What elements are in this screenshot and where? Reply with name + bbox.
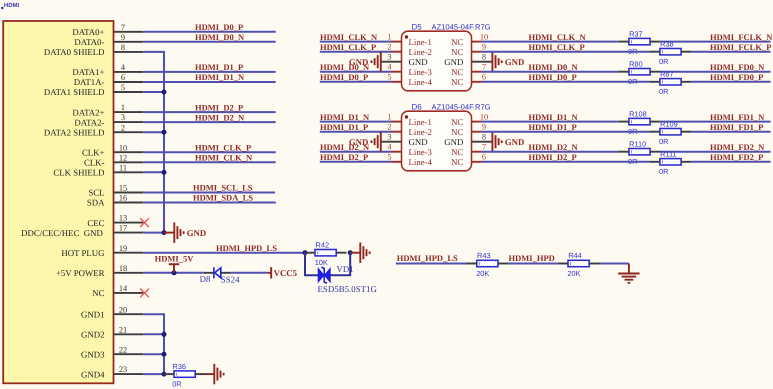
connector pin 5 stub	[114, 91, 144, 93]
wire diode to VCC5	[231, 272, 268, 274]
svg-text:HDMI_CLK_N: HDMI_CLK_N	[320, 32, 378, 42]
ground at D5 pin 3	[372, 51, 381, 71]
IC D6 pin 5	[392, 161, 402, 163]
svg-text:R38: R38	[660, 39, 674, 48]
svg-text:D6: D6	[412, 102, 423, 111]
svg-text:Line-3: Line-3	[409, 147, 433, 157]
svg-text:R37: R37	[629, 29, 643, 38]
wire D6 pin8 to ground	[482, 141, 493, 143]
svg-text:1: 1	[387, 32, 391, 41]
junction GND pin 21	[162, 332, 167, 337]
svg-text:HDMI_D2_P: HDMI_D2_P	[195, 102, 243, 112]
svg-text:SDA: SDA	[87, 198, 105, 208]
svg-text:DATA0+: DATA0+	[72, 27, 104, 37]
svg-text:9: 9	[121, 33, 125, 42]
IC D5 pin 9	[472, 51, 482, 53]
wire net HDMI_FCLK_N	[660, 41, 770, 43]
resistor R80 0R	[619, 71, 629, 73]
wire pin 18 to diode D8	[143, 272, 204, 274]
svg-text:R80: R80	[629, 59, 643, 68]
connector pin 23 stub	[114, 373, 144, 375]
ground at R42	[360, 242, 369, 263]
IC D5 pin 8	[472, 61, 482, 63]
wire GND pin 21	[143, 333, 164, 335]
svg-text:HDMI_D1_P: HDMI_D1_P	[320, 122, 368, 132]
connector pin 4 stub	[114, 71, 144, 73]
IC D6 pin 8	[472, 141, 482, 143]
svg-text:NC: NC	[451, 147, 463, 157]
svg-text:NC: NC	[92, 288, 104, 298]
IC D6 pin 4	[392, 151, 402, 153]
svg-text:HDMI_CLK_N: HDMI_CLK_N	[195, 153, 253, 163]
wire net HDMI_D1_P at D6 left	[320, 131, 392, 133]
svg-text:R42: R42	[316, 240, 330, 249]
svg-text:15: 15	[119, 184, 127, 193]
svg-text:5: 5	[387, 73, 391, 82]
wire net HDMI_D0_N	[482, 71, 619, 73]
IC D5 pin 1	[392, 41, 402, 43]
connector pin 18 stub	[114, 272, 144, 274]
svg-text:6: 6	[121, 73, 125, 82]
svg-text:DDC/CEC/HEC GND: DDC/CEC/HEC GND	[21, 228, 103, 238]
connector J HDMI receptacle body	[3, 21, 113, 383]
resistor R42 10K	[305, 252, 315, 254]
wire shield pin 5	[143, 91, 164, 93]
svg-text:19: 19	[119, 244, 127, 253]
svg-text:GND: GND	[444, 57, 463, 67]
svg-text:GND2: GND2	[81, 330, 104, 340]
wire net HDMI_D1_N	[482, 121, 619, 123]
wire net HDMI_D2_P	[143, 111, 276, 113]
IC D5 pin 10	[472, 41, 482, 43]
wire GND bus vertical	[143, 314, 164, 374]
no-ERC cross pin 13 CEC	[140, 218, 149, 227]
wire GND pin 22	[143, 353, 164, 355]
svg-text:Line-1: Line-1	[409, 117, 432, 127]
wire net HDMI_FD2_N	[660, 151, 770, 153]
svg-text:NC: NC	[451, 127, 463, 137]
connector pin 2 stub	[114, 131, 144, 133]
wire pin17 to bus	[143, 232, 164, 234]
svg-text:DATA2+: DATA2+	[72, 107, 104, 117]
svg-text:17: 17	[119, 224, 127, 233]
wire net HDMI_FCLK_P	[691, 51, 770, 53]
connector pin 15 stub	[114, 192, 144, 194]
svg-text:HDMI_CLK_N: HDMI_CLK_N	[529, 32, 587, 42]
svg-text:HDMI_FD0_P: HDMI_FD0_P	[710, 72, 763, 82]
svg-text:GND: GND	[349, 57, 369, 67]
connector pin 13 stub	[114, 222, 144, 224]
wire pin17 to ground symbol	[164, 232, 174, 234]
wire net HDMI_D0_N at D5 left	[320, 71, 392, 73]
svg-text:HDMI_CLK_P: HDMI_CLK_P	[320, 42, 376, 52]
svg-text:HDMI_D0_N: HDMI_D0_N	[195, 32, 245, 42]
connector pin 12 stub	[114, 161, 144, 163]
junction GND pin 23	[162, 372, 167, 377]
svg-text:GND: GND	[444, 137, 463, 147]
wire VD1 right branch	[330, 253, 350, 276]
svg-text:HDMI_D0_P: HDMI_D0_P	[195, 22, 243, 32]
svg-text:DAT1A-: DAT1A-	[74, 77, 105, 87]
connector pin 3 stub	[114, 121, 144, 123]
HDMI sheet title	[1, 7, 3, 9]
svg-text:GND: GND	[409, 137, 428, 147]
IC D6 pin 3	[392, 141, 402, 143]
wire net HDMI_D2_N	[143, 121, 276, 123]
connector pin 9 stub	[114, 41, 144, 43]
svg-text:HDMI_5V: HDMI_5V	[155, 253, 195, 263]
svg-text:0R: 0R	[172, 380, 181, 389]
svg-text:Line-4: Line-4	[409, 157, 433, 167]
ground at R36	[214, 364, 223, 385]
IC D6 pin 10	[472, 121, 482, 123]
svg-text:HDMI_D1_P: HDMI_D1_P	[195, 62, 243, 72]
diode D8 SS24	[204, 272, 214, 274]
svg-text:10: 10	[480, 32, 488, 41]
svg-text:DATA1+: DATA1+	[72, 67, 104, 77]
svg-text:AZ1045-04F.R7G: AZ1045-04F.R7G	[432, 22, 491, 31]
svg-text:HDMI_SDA_LS: HDMI_SDA_LS	[193, 193, 253, 203]
svg-text:GND: GND	[505, 137, 525, 147]
svg-text:R110: R110	[629, 139, 646, 148]
svg-text:5: 5	[121, 83, 125, 92]
svg-text:R111: R111	[660, 150, 677, 159]
svg-text:CEC: CEC	[87, 218, 104, 228]
svg-text:HDMI_CLK_P: HDMI_CLK_P	[529, 42, 585, 52]
connector pin 19 stub	[114, 252, 144, 254]
svg-text:0R: 0R	[659, 87, 668, 96]
wire to ground right of R42	[350, 252, 360, 254]
IC D6 pin 6	[472, 161, 482, 163]
svg-text:10K: 10K	[315, 258, 328, 267]
svg-text:14: 14	[119, 284, 128, 293]
wire D6 pin3 to ground	[381, 141, 392, 143]
wire net HDMI_HPD	[508, 263, 557, 265]
connector pin 6 stub	[114, 81, 144, 83]
wire VD1 left branch	[305, 253, 318, 276]
svg-text:R109: R109	[660, 119, 678, 128]
svg-text:20: 20	[119, 305, 127, 314]
connector pin 10 stub	[114, 151, 144, 153]
svg-text:12: 12	[119, 153, 127, 162]
svg-text:20K: 20K	[476, 269, 489, 278]
wire R44 to ground corner	[600, 263, 629, 265]
wire net HDMI_CLK_N	[143, 161, 276, 163]
wire shield bus vertical	[143, 52, 164, 233]
svg-text:R43: R43	[477, 251, 491, 260]
connector pin 17 stub	[114, 232, 144, 234]
junction HPD right	[348, 250, 353, 255]
resistor R43 20K	[467, 263, 477, 265]
TVS diode VD1 ESD5B5.0ST1G	[318, 267, 330, 283]
svg-text:HDMI_D0_P: HDMI_D0_P	[529, 72, 577, 82]
svg-text:1: 1	[387, 112, 391, 121]
connector pin 21 stub	[114, 333, 144, 335]
svg-text:CLK SHIELD: CLK SHIELD	[53, 168, 104, 178]
junction shield pin 5	[162, 90, 167, 95]
svg-text:0R: 0R	[659, 167, 668, 176]
svg-text:0R: 0R	[659, 57, 668, 66]
svg-text:8: 8	[482, 53, 486, 62]
resistor R37 0R	[619, 41, 629, 43]
connector pin 11 stub	[114, 171, 144, 173]
wire shield pin 2	[143, 131, 164, 133]
svg-text:D8: D8	[200, 274, 211, 284]
svg-text:NC: NC	[451, 37, 463, 47]
resistor R87 0R	[650, 81, 660, 83]
svg-text:GND1: GND1	[81, 309, 104, 319]
svg-text:VCC5: VCC5	[274, 268, 298, 278]
wire net HDMI_FD0_P	[691, 81, 770, 83]
svg-text:HDMI_HPD: HDMI_HPD	[509, 253, 555, 263]
svg-text:AZ1045-04F.R7G: AZ1045-04F.R7G	[432, 102, 491, 111]
resistor R38 0R	[650, 51, 660, 53]
svg-text:10: 10	[480, 112, 488, 121]
svg-text:HDMI_FD1_N: HDMI_FD1_N	[710, 112, 765, 122]
svg-text:NC: NC	[451, 47, 463, 57]
svg-text:HDMI_D1_N: HDMI_D1_N	[320, 112, 370, 122]
svg-text:HOT PLUG: HOT PLUG	[61, 248, 105, 258]
svg-text:18: 18	[119, 264, 127, 273]
IC D6 AZ1045-04F.R7G body	[402, 111, 472, 171]
svg-text:HDMI_FD1_P: HDMI_FD1_P	[710, 122, 763, 132]
connector pin 22 stub	[114, 353, 144, 355]
svg-text:+5V POWER: +5V POWER	[56, 268, 105, 278]
svg-text:HDMI_D2_P: HDMI_D2_P	[529, 152, 577, 162]
IC D6 pin 9	[472, 131, 482, 133]
svg-text:HDMI_FCLK_N: HDMI_FCLK_N	[710, 32, 773, 42]
svg-text:R36: R36	[172, 362, 186, 371]
svg-text:0R: 0R	[659, 137, 668, 146]
wire GND pin 23	[143, 373, 164, 375]
svg-text:NC: NC	[451, 67, 463, 77]
svg-text:HDMI_CLK_P: HDMI_CLK_P	[195, 142, 251, 152]
wire net HDMI_D0_N	[143, 41, 276, 43]
svg-text:HDMI_D0_N: HDMI_D0_N	[529, 62, 579, 72]
svg-text:2: 2	[121, 123, 125, 132]
svg-text:7: 7	[121, 23, 125, 32]
svg-text:CLK+: CLK+	[82, 147, 105, 157]
svg-text:CLK-: CLK-	[84, 158, 105, 168]
svg-text:HDMI_FD2_N: HDMI_FD2_N	[710, 142, 765, 152]
wire net HDMI_FD0_N	[660, 71, 770, 73]
connector pin 1 stub	[114, 111, 144, 113]
svg-text:DATA2-: DATA2-	[74, 117, 104, 127]
svg-text:HDMI_HPD_LS: HDMI_HPD_LS	[397, 253, 458, 263]
junction HDMI_5V	[172, 270, 177, 275]
svg-text:Line-2: Line-2	[409, 47, 432, 57]
wire net HDMI_D2_N	[482, 151, 619, 153]
svg-text:Line-1: Line-1	[409, 37, 432, 47]
svg-text:GND: GND	[409, 57, 428, 67]
wire net HDMI_CLK_P at D5 left	[320, 51, 392, 53]
wire net HDMI_FD1_P	[691, 131, 770, 133]
svg-text:HDMI_HPD_LS: HDMI_HPD_LS	[216, 243, 277, 253]
svg-text:GND: GND	[187, 228, 207, 238]
connector pin 8 stub	[114, 51, 144, 53]
resistor R109 0R	[650, 131, 660, 133]
svg-text:HDMI_FD2_P: HDMI_FD2_P	[710, 152, 763, 162]
svg-text:6: 6	[482, 73, 486, 82]
svg-text:9: 9	[482, 43, 486, 52]
svg-text:3: 3	[387, 133, 391, 142]
svg-text:HDMI_FD0_N: HDMI_FD0_N	[710, 62, 765, 72]
IC D5 pin 5	[392, 81, 402, 83]
wire D5 pin8 to ground	[482, 61, 493, 63]
svg-text:HDMI_D1_N: HDMI_D1_N	[195, 72, 245, 82]
ground at D5 pin 8	[492, 51, 501, 71]
svg-text:R87: R87	[660, 70, 674, 79]
IC D5 pin 2	[392, 51, 402, 53]
wire net HDMI_D1_P	[482, 131, 650, 133]
svg-text:HDMI_D2_N: HDMI_D2_N	[195, 112, 245, 122]
svg-text:7: 7	[482, 63, 486, 72]
svg-text:16: 16	[119, 194, 127, 203]
IC D5 AZ1045-04F.R7G body	[402, 31, 472, 91]
IC D5 pin 7	[472, 71, 482, 73]
svg-text:R108: R108	[629, 109, 647, 118]
IC D5 pin 6	[472, 81, 482, 83]
svg-text:HDMI: HDMI	[4, 2, 20, 9]
svg-text:6: 6	[482, 153, 486, 162]
svg-text:5: 5	[387, 153, 391, 162]
svg-text:23: 23	[119, 365, 127, 374]
svg-text:SCL: SCL	[88, 188, 104, 198]
svg-text:VD1: VD1	[337, 264, 354, 274]
svg-text:DATA0-: DATA0-	[74, 37, 104, 47]
wire net HDMI_D0_P	[482, 81, 650, 83]
ground at D6 pin 8	[492, 131, 501, 152]
svg-text:Line-2: Line-2	[409, 127, 432, 137]
wire net HDMI_D2_P	[482, 161, 650, 163]
wire R36 to ground	[206, 373, 215, 375]
svg-text:3: 3	[387, 53, 391, 62]
svg-text:HDMI_D2_P: HDMI_D2_P	[320, 152, 368, 162]
svg-text:D5: D5	[412, 22, 423, 31]
IC D6 pin 7	[472, 151, 482, 153]
svg-text:GND3: GND3	[81, 349, 105, 359]
svg-text:8: 8	[482, 133, 486, 142]
wire net HDMI_SCL_LS	[143, 192, 275, 194]
IC D6 pin 1	[392, 121, 402, 123]
wire net HDMI_FD1_N	[660, 121, 770, 123]
svg-text:ESD5B5.0ST1G: ESD5B5.0ST1G	[318, 284, 378, 294]
IC D6 pin 2	[392, 131, 402, 133]
resistor R110 0R	[619, 151, 629, 153]
svg-text:22: 22	[119, 345, 127, 354]
wire net HDMI_D1_N at D6 left	[320, 121, 392, 123]
junction HPD left	[303, 250, 308, 255]
wire shield pin 11	[143, 171, 164, 173]
wire net HDMI_D0_P at D5 left	[320, 81, 392, 83]
svg-text:NC: NC	[451, 117, 463, 127]
svg-text:2: 2	[387, 43, 391, 52]
svg-text:DATA0 SHIELD: DATA0 SHIELD	[44, 47, 105, 57]
svg-text:HDMI_D0_P: HDMI_D0_P	[320, 72, 368, 82]
resistor R111 0R	[650, 161, 660, 163]
power port VCC5	[268, 272, 272, 274]
wire net HDMI_D1_N	[143, 81, 276, 83]
svg-text:HDMI_SCL_LS: HDMI_SCL_LS	[193, 183, 253, 193]
wire net HDMI_SDA_LS	[143, 202, 276, 204]
ground GND at pin 17	[174, 222, 183, 243]
svg-text:NC: NC	[451, 77, 463, 87]
svg-text:GND: GND	[505, 57, 525, 67]
junction GND pin 22	[162, 352, 167, 357]
wire net HDMI_HPD_LS right section	[396, 263, 467, 265]
connector pin 7 stub	[114, 31, 144, 33]
resistor R44 20K	[558, 263, 568, 265]
junction shield pin 11	[162, 170, 167, 175]
ground at R44	[628, 264, 630, 274]
svg-text:7: 7	[482, 143, 486, 152]
power port HDMI_5V	[173, 264, 175, 273]
wire net HDMI_D2_N at D6 left	[320, 151, 392, 153]
svg-text:HDMI_D1_N: HDMI_D1_N	[529, 112, 579, 122]
svg-text:SS24: SS24	[221, 274, 240, 284]
ground at D6 pin 3	[372, 131, 381, 152]
svg-text:Line-3: Line-3	[409, 67, 433, 77]
svg-text:3: 3	[121, 113, 125, 122]
svg-text:9: 9	[482, 123, 486, 132]
svg-text:HDMI_FCLK_P: HDMI_FCLK_P	[710, 42, 771, 52]
resistor R108 0R	[619, 121, 629, 123]
svg-text:8: 8	[121, 43, 125, 52]
svg-text:21: 21	[119, 325, 127, 334]
junction shield pin 2	[162, 130, 167, 135]
svg-text:11: 11	[119, 163, 127, 172]
svg-text:DATA1 SHIELD: DATA1 SHIELD	[44, 87, 105, 97]
wire net HDMI_CLK_N at D5 left	[320, 41, 392, 43]
svg-text:GND: GND	[349, 137, 369, 147]
wire net HDMI_CLK_P	[143, 151, 276, 153]
wire net HDMI_FD2_P	[691, 161, 770, 163]
svg-text:HDMI_D1_P: HDMI_D1_P	[529, 122, 577, 132]
svg-text:DATA2 SHIELD: DATA2 SHIELD	[44, 127, 105, 137]
connector pin 14 stub	[114, 292, 144, 294]
wire net HDMI_CLK_N	[482, 41, 619, 43]
svg-text:HDMI_D2_N: HDMI_D2_N	[529, 142, 579, 152]
resistor R36 0R	[164, 373, 174, 375]
svg-text:10: 10	[119, 143, 127, 152]
wire net HDMI_D1_P	[143, 71, 276, 73]
svg-text:R44: R44	[568, 251, 582, 260]
junction pin17 GND bus	[162, 230, 167, 235]
svg-text:13: 13	[119, 214, 127, 223]
wire net HDMI_CLK_P	[482, 51, 650, 53]
no-ERC cross pin 14 NC	[140, 289, 149, 298]
wire net HDMI_D0_P	[143, 31, 276, 33]
wire D5 pin3 to ground	[381, 61, 392, 63]
connector pin 20 stub	[114, 313, 144, 315]
svg-text:20K: 20K	[567, 269, 580, 278]
svg-text:GND4: GND4	[81, 369, 105, 379]
wire net HDMI_HPD_LS from pin 19	[143, 252, 305, 254]
connector pin 16 stub	[114, 202, 144, 204]
svg-text:NC: NC	[451, 157, 463, 167]
IC D5 pin 4	[392, 71, 402, 73]
IC D5 pin 3	[392, 61, 402, 63]
svg-text:1: 1	[121, 103, 125, 112]
svg-text:Line-4: Line-4	[409, 77, 433, 87]
wire net HDMI_D2_P at D6 left	[320, 161, 392, 163]
svg-text:2: 2	[387, 123, 391, 132]
